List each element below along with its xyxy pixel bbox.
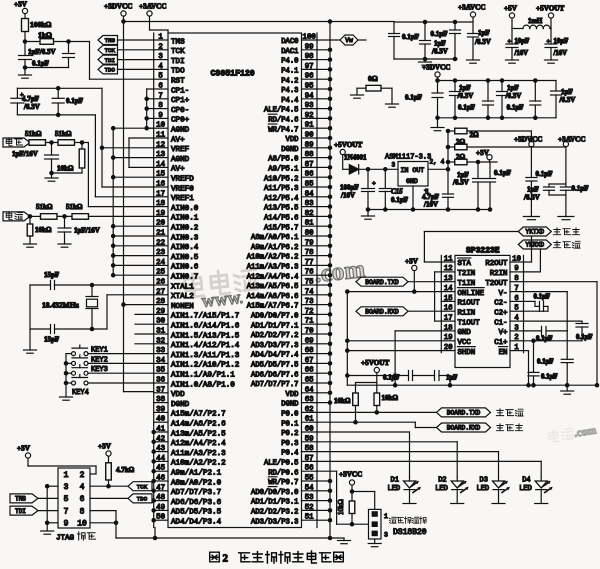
wire U3 GND pin 18 [393, 331, 441, 385]
svg-text:LED: LED [388, 485, 401, 493]
U1 pin 90 VDD [286, 132, 314, 145]
wire RST net [90, 42, 154, 80]
ground (g1 d) [467, 60, 480, 63]
J1 pins 5/6 [64, 495, 85, 504]
U1 pin 60 P0.2 [281, 426, 313, 439]
svg-text:1μF/16V: 1μF/16V [12, 150, 38, 158]
svg-text:DGND: DGND [281, 146, 298, 154]
resistor 2 ohm (r1) [446, 128, 531, 139]
U3 pin 3 V+ [499, 324, 519, 337]
ground (D1) [403, 503, 416, 505]
wire VREF tie [100, 88, 153, 187]
svg-text:A9m/A1/P2.1: A9m/A1/P2.1 [171, 470, 222, 478]
wire U3 STA to YKTXD [424, 232, 518, 263]
U1 pin 80 A8m/A0/P6.1 [251, 230, 314, 243]
tag BOARD.RXD (bottom) [437, 423, 491, 432]
U1 pin 87 A9/P5.1 [268, 161, 313, 174]
svg-text:2: 2 [80, 471, 85, 480]
capacitor 1uF/16V (i) [58, 216, 100, 244]
U3 pin 2 C1+ [494, 334, 519, 347]
wire P0.6 to DS18B20 DQ [317, 471, 369, 524]
svg-text:A8/P5.0: A8/P5.0 [268, 156, 298, 164]
svg-text:/6.3V: /6.3V [431, 48, 448, 56]
svg-text:LED: LED [477, 485, 490, 493]
svg-text:100kΩ: 100kΩ [30, 20, 51, 29]
svg-text:AIN0.3: AIN0.3 [171, 234, 199, 242]
svg-text:+3AVCC: +3AVCC [139, 3, 167, 11]
svg-text:+3DVCC: +3DVCC [514, 136, 542, 144]
svg-text:WR/P4.7: WR/P4.7 [268, 126, 298, 134]
U1 pin 48 AD6/D6/P3.6 [156, 494, 221, 507]
svg-text:WR/P0.7: WR/P0.7 [268, 479, 298, 487]
svg-text:49: 49 [156, 504, 165, 512]
wire cap group2 rails [436, 79, 556, 118]
U1 pin 10 AGND [156, 122, 190, 135]
svg-text:55: 55 [305, 475, 314, 483]
wire cap group1 rails [394, 22, 473, 59]
crystal 18.432MHz [42, 285, 98, 329]
svg-text:0.1μF: 0.1μF [458, 104, 475, 112]
U1 pin 78 A10m/A2/P6.2 [247, 249, 314, 262]
watermark [184, 256, 367, 312]
svg-text:68: 68 [305, 347, 314, 355]
svg-text:V+: V+ [499, 329, 508, 337]
svg-text:AD2/D2/P3.2: AD2/D2/P3.2 [251, 509, 298, 517]
U1 pin 93 ALE/P4.5 [264, 102, 314, 115]
svg-text:DS18B20: DS18B20 [393, 528, 427, 537]
svg-text:7: 7 [158, 92, 162, 100]
svg-text:41: 41 [156, 426, 165, 434]
svg-text:RD/P0.6: RD/P0.6 [268, 469, 298, 477]
svg-text:3: 3 [158, 53, 162, 61]
wire pullup tee [356, 383, 377, 394]
svg-text:+3AVCC: +3AVCC [558, 136, 586, 144]
U3 pin 7 V- [499, 285, 519, 298]
svg-text:11: 11 [156, 132, 165, 140]
wire AGND pin 10 [113, 127, 154, 129]
svg-text:64: 64 [305, 386, 314, 394]
tag TDI (JTAG) [10, 506, 58, 515]
svg-text:80: 80 [305, 230, 314, 238]
svg-text:13: 13 [156, 151, 165, 159]
svg-text:92: 92 [305, 112, 314, 120]
svg-text:4.7μF: 4.7μF [22, 95, 39, 103]
resistor 2 ohm (r2) [446, 138, 566, 150]
svg-text:C1-: C1- [494, 319, 507, 327]
J1 pins 3/4 [64, 483, 85, 492]
ground (0 ohm left) [351, 95, 364, 98]
capacitor 100uF/10V [340, 169, 376, 209]
capacitor 0.1uF (C2) [524, 294, 551, 312]
svg-text:52: 52 [305, 504, 314, 512]
ground (D3) [492, 503, 505, 505]
svg-text:AD6/D6/P3.6: AD6/D6/P3.6 [171, 499, 222, 507]
wire AV+ tie pins 11-14 [129, 138, 154, 167]
capacitor 1uF/6.3V (g2 b) [450, 79, 474, 120]
svg-text:15: 15 [444, 295, 453, 303]
U1 pin 64 VDD [286, 386, 315, 399]
svg-text:/6.3V: /6.3V [474, 38, 491, 46]
junction dots on right bus [328, 48, 331, 522]
wire +3DVCC rail across top [122, 20, 394, 23]
svg-text:P0.4: P0.4 [281, 450, 298, 458]
LED D3 [477, 477, 511, 504]
svg-text:AD3/D3/P3.3: AD3/D3/P3.3 [251, 518, 298, 526]
U1 pin 55 WR/P0.7 [268, 475, 313, 488]
svg-text:48: 48 [156, 494, 165, 502]
svg-text:24: 24 [156, 259, 165, 267]
tag Vw [317, 35, 366, 45]
U1 pin 94 P4.4 [281, 92, 314, 105]
U1 pin 25 AIN0.7 [156, 269, 198, 282]
U1 pin 5 RST [158, 73, 185, 86]
power +3DVCC (g2) [422, 64, 450, 81]
svg-text:96: 96 [305, 73, 314, 81]
svg-text:87: 87 [305, 161, 314, 169]
svg-text:1μF: 1μF [527, 186, 539, 194]
svg-text:D1: D1 [391, 477, 399, 485]
svg-text:/6.3V: /6.3V [523, 194, 540, 202]
svg-text:AIN1.0/A8/P1.0: AIN1.0/A8/P1.0 [171, 381, 235, 389]
svg-text:AD1/D1/P3.1: AD1/D1/P3.1 [251, 499, 298, 507]
svg-text:1μF: 1μF [561, 88, 573, 96]
svg-text:GND: GND [406, 178, 418, 185]
svg-text:13: 13 [444, 275, 453, 283]
capacitor 1uF/6.3V (g2 f) [551, 81, 576, 118]
svg-text:P4.2: P4.2 [281, 77, 298, 85]
svg-text:XTAL2: XTAL2 [171, 293, 194, 301]
svg-text:RST: RST [171, 78, 185, 86]
U1 pin 53 AD1/D1/P3.1 [251, 494, 314, 507]
svg-text:50: 50 [156, 514, 165, 522]
svg-text:23: 23 [156, 249, 165, 257]
power +3V (SP3223E) [405, 258, 419, 294]
J1 pins 7/8 [64, 507, 85, 516]
wire P0.0 to BOARD.TXD [317, 411, 437, 413]
net AGND bus [112, 127, 154, 277]
capacitor 0.1uF (C1) [524, 321, 593, 341]
wire OUT riser [447, 131, 449, 169]
svg-text:8: 8 [514, 275, 518, 283]
svg-text:1N4001: 1N4001 [344, 154, 367, 162]
svg-text:0.1μF: 0.1μF [534, 294, 551, 301]
ground (g1) [419, 59, 432, 65]
wire R2OUT to YKTXD [524, 236, 532, 262]
tag dianya (voltage input) [3, 138, 30, 147]
U1 pin 8 CP0- [158, 102, 189, 115]
svg-text:A14m/A6/P6.6: A14m/A6/P6.6 [247, 293, 299, 301]
svg-text:AD7/D7/P7.7: AD7/D7/P7.7 [251, 381, 298, 389]
svg-text:97: 97 [305, 63, 314, 71]
U1 pin 99 DAC1 [281, 43, 313, 56]
svg-text:A9m/A1/P6.2: A9m/A1/P6.2 [251, 244, 298, 252]
resistor 10k (v) [52, 143, 85, 174]
U1 pin 71 AD1/D1/P7.1 [251, 318, 314, 331]
svg-text:4: 4 [80, 483, 85, 492]
svg-text:1mH: 1mH [528, 18, 543, 25]
capacitor 0.1uF (ref) [52, 87, 83, 117]
U1 pin 6 CP1- [158, 83, 189, 96]
svg-text:BOARD.TXD: BOARD.TXD [447, 410, 481, 417]
capacitor 0.1uF (V- to V+) [524, 292, 568, 343]
svg-text:MONEN: MONEN [171, 303, 194, 311]
ground (DS18B20) [368, 539, 381, 547]
IC U3 SP3223E body [455, 255, 510, 367]
U1 pin 22 AIN0.4 [156, 239, 199, 252]
ground (v divider) [45, 173, 58, 181]
svg-text:TDI: TDI [171, 58, 185, 66]
power +5VOUT (regulator in) [334, 141, 363, 169]
U3 pin 5 C2+ [494, 305, 519, 318]
U1 pin 31 AIN1.5/A13/P1.5 [156, 328, 240, 341]
svg-text:BOARD.TXD: BOARD.TXD [365, 279, 399, 286]
U1 pin 89 DGND [281, 141, 313, 154]
U1 pin 83 A13/P5.5 [264, 200, 314, 213]
tag BOARD.TXD (to U3) [356, 277, 441, 286]
svg-text:CP1-: CP1- [171, 87, 189, 95]
U1 pin 29 AIN1.7/A15/P1.7 [156, 308, 239, 321]
LED D2 [435, 477, 469, 504]
svg-text:51kΩ: 51kΩ [25, 130, 42, 138]
svg-text:VDD: VDD [286, 391, 299, 399]
svg-text:GND: GND [458, 329, 472, 337]
capacitor 4.7uF/10V [422, 169, 454, 209]
ground (3AVCC rail) [558, 217, 574, 220]
power +3VCC [339, 471, 362, 494]
node reset junction [23, 40, 70, 43]
U1 pin 76 A12m/A4/P6.4 [247, 269, 314, 282]
capacitor 10uF/16V (5V) [506, 29, 529, 61]
svg-text:TCK: TCK [171, 48, 185, 56]
svg-text:15: 15 [156, 171, 165, 179]
svg-text:8: 8 [158, 102, 162, 110]
U1 pin 39 A15m/A7/P2.7 [156, 406, 226, 419]
U1 pin 81 A15/P5.7 [264, 220, 314, 233]
svg-text:A10m/A2/P2.2: A10m/A2/P2.2 [171, 460, 226, 468]
svg-text:C15: C15 [391, 188, 403, 196]
ground (g2) [431, 116, 444, 131]
U1 pin 97 P4.1 [281, 63, 313, 76]
U1 pin 7 CP1+ [158, 92, 189, 105]
connector DS18B20 body [369, 509, 382, 539]
wire +3V to J1 pin2 [28, 466, 96, 474]
ground (0 ohm right) [386, 104, 399, 107]
svg-text:14: 14 [156, 161, 165, 169]
U1 pin 44 A10m/A2/P2.2 [156, 455, 226, 468]
U1 pin 79 A9m/A1/P6.2 [251, 239, 314, 252]
svg-text:+: + [547, 38, 551, 45]
IC U1 C8051F120 body [168, 33, 302, 528]
U1 pin 28 MONEN [156, 298, 194, 311]
svg-text:10μF: 10μF [515, 38, 530, 45]
capacitor 0.1uF (SP vcc a) [347, 371, 412, 382]
svg-text:A14/P5.6: A14/P5.6 [264, 215, 299, 223]
svg-text:0.1μF: 0.1μF [507, 104, 524, 112]
svg-text:82: 82 [305, 210, 314, 218]
svg-text:/10V: /10V [340, 192, 355, 200]
power +3AVCC (top) [139, 3, 167, 31]
svg-text:47: 47 [156, 484, 165, 492]
svg-text:9: 9 [514, 265, 518, 273]
svg-text:21: 21 [156, 230, 165, 238]
svg-text:0.1μF: 0.1μF [536, 336, 553, 343]
J1 pins 1/2 [64, 471, 85, 480]
capacitor 0.1uF (g1 a) [389, 22, 420, 59]
svg-text:1: 1 [384, 513, 388, 520]
svg-text:AV+: AV+ [171, 136, 185, 144]
ground (D4) [535, 503, 548, 505]
svg-text:DAC1: DAC1 [281, 48, 298, 56]
svg-text:DGND: DGND [281, 401, 298, 409]
svg-text:1μF: 1μF [478, 29, 490, 37]
svg-text:14: 14 [444, 285, 453, 293]
overlines RD/WR pin names [268, 114, 277, 486]
ground (crystal) [24, 350, 37, 353]
svg-text:56: 56 [305, 465, 314, 473]
wire XTAL1 [90, 283, 153, 286]
wire EN to ground rail [524, 351, 531, 387]
svg-text:AD4/D4/P3.4: AD4/D4/P3.4 [171, 519, 222, 527]
svg-text:4.7kΩ: 4.7kΩ [116, 466, 135, 474]
U3 pin 20 SHDN [444, 344, 475, 357]
svg-text:9: 9 [64, 520, 69, 529]
U3 pin 10 R2OUT [485, 255, 521, 268]
svg-text:A13/P5.5: A13/P5.5 [264, 205, 299, 213]
svg-text:59: 59 [305, 435, 314, 443]
svg-text:A15m/A7/P6.7: A15m/A7/P6.7 [247, 303, 299, 311]
svg-text:AGND: AGND [171, 156, 190, 164]
svg-text:78: 78 [305, 249, 314, 257]
svg-text:5: 5 [64, 495, 69, 504]
svg-text:2Ω: 2Ω [456, 138, 466, 146]
resistor 0 ohm [357, 74, 392, 104]
svg-text:AIN0.4: AIN0.4 [171, 244, 199, 252]
wire MONEN to bus [122, 303, 154, 306]
stub wires unused right pins to bus [317, 50, 330, 520]
U1 pin 23 AIN0.5 [156, 249, 199, 262]
svg-text:1μF/6.3V: 1μF/6.3V [28, 48, 56, 56]
diode D5 1N4001 [343, 154, 398, 175]
svg-text:R1OUT: R1OUT [458, 300, 481, 308]
U1 pin 21 AIN0.3 [156, 230, 199, 243]
tag TCK [98, 45, 154, 54]
svg-text:33: 33 [156, 347, 165, 355]
svg-text:LED: LED [435, 485, 448, 493]
capacitor 1uF/6.3V (g1 d) [468, 29, 491, 59]
U1 right pin comb [302, 33, 318, 528]
svg-text:1: 1 [158, 34, 163, 42]
svg-text:29: 29 [156, 308, 165, 316]
svg-text:A10m/A2/P6.2: A10m/A2/P6.2 [247, 254, 299, 262]
U1 pin 56 RD/P0.6 [268, 465, 313, 478]
label master-recv (TXD) [496, 409, 523, 416]
svg-text:5: 5 [514, 305, 518, 313]
stub wires left pins 29-32 [135, 314, 154, 343]
svg-text:R2IN: R2IN [490, 270, 508, 278]
svg-text:69: 69 [305, 337, 314, 345]
svg-text:81: 81 [305, 220, 314, 228]
svg-text:P4.1: P4.1 [281, 68, 298, 76]
power +3V (regulator out) [476, 149, 492, 162]
U3 pin 15 R1OUT [444, 295, 480, 308]
capacitor 0.1uF (3AVCC rail) [560, 185, 588, 217]
U1 pin 58 P0.4 [281, 445, 313, 458]
svg-text:38: 38 [156, 396, 165, 404]
wire TDO net [90, 497, 128, 499]
svg-text:D2: D2 [438, 477, 446, 485]
svg-text:0.1μF: 0.1μF [66, 97, 83, 105]
svg-text:72: 72 [305, 308, 314, 316]
resistor 10k (pullup a) [334, 393, 358, 424]
U1 pin 34 AIN1.2/A10/P1.2 [156, 357, 240, 370]
svg-text:KEY4: KEY4 [72, 389, 89, 397]
svg-text:RD/P4.6: RD/P4.6 [268, 117, 298, 125]
capacitor 0.1uF (g2 c) [458, 79, 494, 120]
svg-text:6: 6 [514, 295, 518, 303]
U1 pin 24 AIN0.6 [156, 259, 199, 272]
svg-text:VCC: VCC [458, 339, 472, 347]
wire P0 to LED D1 [317, 432, 410, 477]
U1 pin 33 AIN1.3/A11/P1.3 [156, 347, 240, 360]
U1 pin 91 WR/P4.7 [268, 122, 314, 135]
U1 pin 20 AIN0.2 [156, 220, 199, 233]
ground (3DVCC rail) [523, 217, 539, 220]
svg-text:VDD: VDD [286, 136, 299, 144]
svg-text:1kΩ: 1kΩ [38, 31, 52, 40]
tag dianliu (current input) [3, 212, 30, 221]
power +3V (reset) [14, 1, 28, 19]
svg-text:AD5/D5/P7.5: AD5/D5/P7.5 [251, 362, 298, 370]
wire +3VCC to pin1 [352, 492, 375, 515]
U1 pin 13 AGND [156, 151, 190, 164]
svg-text:P4.0: P4.0 [281, 58, 298, 66]
svg-text:12: 12 [156, 141, 165, 149]
svg-text:37: 37 [156, 386, 165, 394]
ground (SP area) [561, 384, 599, 395]
wire P0.1 to BOARD.RXD [317, 422, 437, 427]
svg-text:51: 51 [305, 514, 314, 522]
wire JTAG to U1 bottom [116, 528, 344, 540]
svg-text:A15/P5.7: A15/P5.7 [264, 224, 299, 232]
U1 pin 49 AD5/D5/P3.5 [156, 504, 221, 517]
svg-text:40: 40 [156, 416, 165, 424]
svg-text:74: 74 [305, 288, 314, 296]
wire P0 to LED D3 [317, 452, 499, 477]
power +3AVCC (rail4) [558, 136, 586, 188]
U3 pin 16 R1IN [444, 305, 475, 318]
switch KEY2 [72, 355, 108, 366]
svg-text:70: 70 [305, 328, 314, 336]
svg-text:D3: D3 [480, 477, 488, 485]
svg-text:V-: V- [499, 290, 508, 298]
svg-text:/16V: /16V [553, 50, 568, 57]
svg-text:57: 57 [305, 455, 314, 463]
capacitor 0.1uF (g1 c) [431, 20, 461, 60]
svg-text:18: 18 [156, 200, 165, 208]
svg-text:0.1μF: 0.1μF [536, 170, 553, 178]
svg-text:3: 3 [514, 324, 518, 332]
svg-text:EN: EN [499, 349, 508, 357]
inductor 1mH [512, 18, 551, 29]
svg-text:2: 2 [514, 334, 518, 342]
svg-text:A14m/A6/P2.6: A14m/A6/P2.6 [171, 421, 226, 429]
svg-text:98: 98 [305, 53, 314, 61]
svg-text:AIN1.4/A12/P1.4: AIN1.4/A12/P1.4 [171, 342, 240, 350]
svg-text:18.432MHz: 18.432MHz [42, 301, 80, 310]
svg-text:C1+: C1+ [494, 339, 508, 347]
svg-text:85: 85 [305, 181, 314, 189]
svg-text:LED: LED [519, 485, 532, 493]
